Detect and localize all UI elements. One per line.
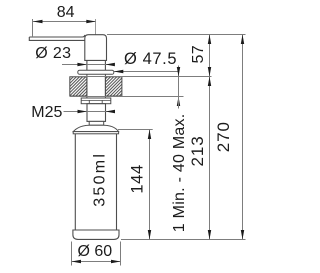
flange disc: [78, 70, 114, 74]
wire centerline into head: [95, 19, 97, 46]
locking nut: [81, 98, 111, 104]
threaded tube M25: [87, 104, 106, 122]
dimension Ø60 left extension line: [71, 242, 73, 266]
dimension 144 bottom arrow: [148, 230, 151, 240]
bottom extension line: [121, 239, 246, 241]
svg-text:270: 270: [214, 121, 233, 152]
dimension 144 extension line: [118, 129, 153, 131]
top extension line: [107, 34, 246, 36]
counter thickness dim shaft top: [178, 66, 180, 77]
counter bottom line: [70, 96, 184, 98]
dimension 84 left arrow: [33, 20, 43, 23]
countertop section right (hatched): [105, 77, 122, 96]
dimension 270 top arrow: [241, 35, 244, 45]
svg-text:84: 84: [57, 4, 75, 21]
dimension Ø60 line: [72, 261, 121, 263]
dimension Ø23 left arrow: [77, 63, 87, 66]
head (pump knob): [85, 35, 107, 61]
svg-text:144: 144: [128, 164, 146, 193]
svg-text:1 Min. - 40 Max.: 1 Min. - 40 Max.: [171, 113, 188, 232]
dimension M25 right arrow: [106, 110, 116, 113]
dimension 144 top arrow: [148, 130, 151, 140]
bottle body: [75, 134, 116, 230]
bottle base cap: [73, 230, 119, 239]
svg-text:M25: M25: [31, 104, 62, 121]
dimension M25 leader: [64, 111, 115, 113]
counter top line: [70, 76, 212, 78]
dimension Ø23 leader: [62, 64, 113, 66]
spout arm: [29, 35, 85, 41]
dimension 57 line: [209, 35, 211, 77]
dimension Ø23 right arrow: [105, 63, 115, 66]
neck tube: [87, 60, 106, 70]
dimension 213 top arrow: [208, 77, 211, 87]
svg-text:Ø 47.5: Ø 47.5: [124, 50, 177, 68]
counter thickness down arrow: [177, 67, 180, 77]
svg-text:Ø 23: Ø 23: [35, 45, 71, 62]
dimension 57 bottom arrow: [208, 67, 211, 77]
shank tube through counter: [87, 74, 106, 98]
dimension 84 extension line: [32, 19, 34, 37]
dimension Ø47.5 leader: [114, 71, 179, 73]
dimension 57 top arrow: [208, 35, 211, 45]
dimension Ø60 right extension line: [120, 242, 122, 266]
dimension Ø60 left arrow: [72, 260, 82, 263]
dimension Ø47.5 arrow: [114, 70, 124, 73]
dimension 213 bottom arrow: [208, 230, 211, 240]
bottle shoulder dome: [73, 125, 118, 131]
bottle shoulder rim: [73, 132, 118, 134]
svg-text:Ø 60: Ø 60: [78, 243, 113, 260]
dimension Ø60 right arrow: [111, 260, 121, 263]
counter thickness line across counter: [178, 77, 180, 97]
svg-text:57: 57: [190, 45, 207, 64]
countertop section left (hatched): [70, 77, 87, 96]
dimension 144 line: [149, 130, 151, 240]
counter thickness dim shaft bottom: [178, 97, 180, 109]
dimension 270 line: [242, 35, 244, 240]
dimension 270 bottom arrow: [241, 230, 244, 240]
svg-text:350ml: 350ml: [92, 152, 109, 207]
dimension 84 right arrow: [86, 20, 96, 23]
dimension 213 line: [209, 77, 211, 240]
dimension M25 left arrow: [78, 110, 88, 113]
dimension 84 line: [33, 21, 96, 23]
pedestal collar: [89, 121, 104, 125]
svg-text:213: 213: [188, 135, 207, 166]
counter thickness up arrow: [177, 97, 180, 107]
